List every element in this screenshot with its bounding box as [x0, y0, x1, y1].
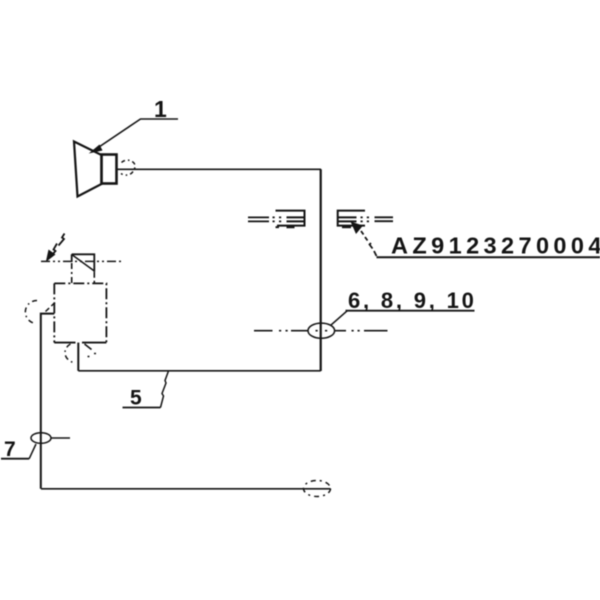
connector left double line [248, 217, 269, 221]
underline 7 [1, 458, 29, 460]
component top box diagonal [72, 255, 95, 272]
underline 6-8-9-10 [346, 310, 475, 312]
part number arrowhead [351, 222, 364, 235]
leader 7 [29, 444, 36, 459]
bottom wire component to right vertical [78, 370, 320, 372]
component arrowhead [46, 250, 56, 263]
component arrow dashed [52, 234, 65, 256]
connector right dots [361, 217, 370, 221]
clip 7 ellipse [31, 433, 51, 444]
svg-text:AZ9123270004: AZ9123270004 [391, 233, 600, 259]
svg-text:6, 8, 9, 10: 6, 8, 9, 10 [348, 288, 477, 313]
part number arrow dashed [361, 231, 377, 256]
arrowhead 1 [89, 145, 103, 154]
underline 5 [123, 407, 161, 409]
svg-text:5: 5 [130, 387, 142, 410]
connector left ticks [276, 226, 295, 228]
pin arc right [85, 344, 97, 357]
leader 5 [161, 372, 169, 408]
leader 6-8-9-10 [331, 311, 348, 326]
left terminal arc [25, 300, 37, 323]
component neck phantom edges [72, 263, 95, 283]
connector right housing [338, 211, 365, 226]
part number underline [377, 256, 600, 258]
connector right double line [375, 217, 394, 221]
centerline through clip [254, 330, 388, 332]
connector right ticks [342, 226, 351, 228]
connector left dots [273, 217, 282, 221]
horn H magnet [102, 155, 117, 184]
clip 7 stub [51, 437, 70, 439]
component bottom pin [77, 343, 79, 371]
pin arc left [65, 344, 74, 363]
clip 6-8-9-10 ellipse [308, 323, 335, 338]
horn H cone [74, 142, 102, 197]
ground wire bottom [41, 488, 331, 490]
connector left housing [276, 211, 305, 226]
wire horn to corner [117, 168, 322, 170]
left terminal diagonal dash [46, 303, 56, 312]
component body phantom [54, 283, 106, 342]
svg-text:7: 7 [4, 438, 16, 461]
svg-text:1: 1 [154, 96, 167, 122]
horn terminal arc [121, 160, 135, 175]
terminal ring dashed [304, 481, 331, 497]
component centerline [41, 260, 123, 262]
wire right vertical [320, 169, 322, 371]
leader line 1 [96, 119, 178, 149]
component left terminal wire [41, 314, 55, 489]
component top box [72, 254, 95, 271]
